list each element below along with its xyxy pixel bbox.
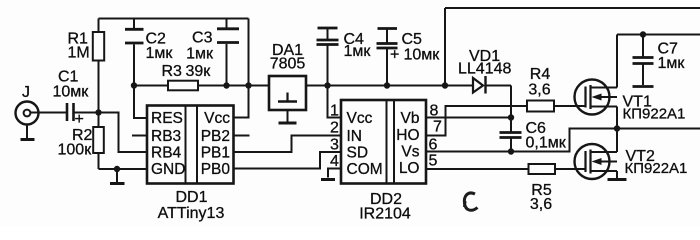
wire PB0 to DD2 SD bbox=[234, 152, 342, 169]
transistor VT2 bbox=[575, 144, 618, 179]
node A (C1/R1/R2 junction) bbox=[95, 109, 101, 115]
svg-text:0,1мк: 0,1мк bbox=[526, 135, 567, 152]
svg-text:LO: LO bbox=[399, 160, 420, 177]
wire VD1 cathode down to Vb bbox=[510, 86, 512, 118]
connector J (input jack) bbox=[16, 102, 39, 125]
capacitor C1 bbox=[67, 103, 99, 121]
wire output middle bbox=[617, 128, 700, 130]
IC DD2 box bbox=[341, 100, 426, 184]
wire VT2 drain up to switch node bbox=[616, 129, 618, 153]
svg-text:ATTiny13: ATTiny13 bbox=[158, 205, 225, 222]
ground (DA1) bbox=[279, 110, 297, 123]
svg-text:КП922А1: КП922А1 bbox=[623, 106, 686, 123]
resistor R3 bbox=[168, 81, 269, 91]
IC DD1 box bbox=[147, 106, 234, 184]
transistor VT1 bbox=[575, 80, 618, 115]
wire PB1 to DD2 IN bbox=[234, 136, 342, 153]
wire mid rail left bbox=[134, 85, 168, 87]
svg-text:Vs: Vs bbox=[401, 144, 419, 161]
svg-text:PB1: PB1 bbox=[201, 145, 230, 162]
svg-text:КП922А1: КП922А1 bbox=[625, 160, 688, 177]
wire DD2 pin8 Vb bbox=[426, 117, 511, 119]
svg-text:Vcc: Vcc bbox=[204, 110, 230, 127]
wire VT2 source down bbox=[616, 171, 618, 178]
wire RB3 stub bbox=[132, 135, 147, 137]
resistor R4 bbox=[527, 101, 587, 112]
svg-text:GND: GND bbox=[151, 161, 185, 178]
wire C2 node to DD1 RES bbox=[134, 86, 147, 119]
ground (VT2 source) bbox=[608, 178, 627, 181]
ground (DD2 COM) bbox=[321, 178, 335, 181]
wire jack to C1 bbox=[31, 112, 67, 114]
node (C5 tap) bbox=[384, 82, 390, 88]
svg-text:4: 4 bbox=[330, 153, 339, 170]
svg-text:7805: 7805 bbox=[270, 56, 306, 73]
svg-text:6: 6 bbox=[429, 137, 438, 154]
wire top right rail bbox=[445, 7, 700, 9]
svg-text:1мк: 1мк bbox=[146, 45, 174, 62]
resistor R5 bbox=[529, 164, 587, 174]
wire VT1 source down to switch node bbox=[616, 107, 618, 129]
svg-text:39к: 39к bbox=[186, 63, 212, 80]
svg-text:1: 1 bbox=[330, 103, 339, 120]
wire rail to DD2 Vcc pin 1 bbox=[328, 86, 342, 118]
wire riser to top right rail bbox=[444, 8, 446, 86]
svg-text:Vcc: Vcc bbox=[347, 110, 373, 127]
svg-text:R4: R4 bbox=[530, 66, 551, 83]
svg-text:SD: SD bbox=[347, 145, 369, 162]
wire DD2 COM to ground bbox=[328, 169, 341, 178]
svg-text:PB2: PB2 bbox=[201, 128, 230, 145]
wire top-left rail bbox=[99, 18, 249, 20]
diode VD1 bbox=[446, 76, 511, 94]
svg-text:IN: IN bbox=[347, 128, 363, 145]
svg-text:LL4148: LL4148 bbox=[458, 61, 511, 78]
node (Vcc drop / rail) bbox=[245, 82, 251, 88]
resistor R1 bbox=[93, 19, 104, 113]
node (Vb / C6 top) bbox=[508, 114, 514, 120]
svg-text:R3: R3 bbox=[162, 63, 183, 80]
capacitor C5 bbox=[377, 29, 398, 86]
node (rail / top right riser) bbox=[442, 82, 448, 88]
svg-text:8: 8 bbox=[430, 103, 439, 120]
stray mark (handwritten C) bbox=[464, 193, 477, 210]
node (C7 tap) bbox=[640, 31, 646, 37]
svg-text:10мк: 10мк bbox=[53, 84, 90, 101]
svg-text:C5: C5 bbox=[402, 31, 423, 48]
svg-text:1M: 1M bbox=[68, 45, 90, 62]
svg-text:Vb: Vb bbox=[401, 110, 420, 127]
wire PB2 stub bbox=[234, 135, 250, 137]
capacitor C4 bbox=[317, 28, 339, 86]
svg-text:+: + bbox=[390, 47, 399, 64]
capacitor C3 bbox=[217, 19, 239, 86]
svg-text:7: 7 bbox=[433, 119, 442, 136]
svg-text:C3: C3 bbox=[192, 30, 213, 47]
voltage regulator DA1 bbox=[269, 76, 306, 110]
ground (jack) bbox=[21, 125, 35, 140]
svg-text:2: 2 bbox=[330, 120, 339, 137]
wire mid rail right bbox=[306, 85, 446, 87]
svg-text:3,6: 3,6 bbox=[530, 196, 552, 213]
capacitor C6 bbox=[500, 118, 522, 152]
node (C4 / DD2 Vcc tap) bbox=[324, 82, 330, 88]
wire DD2 pin5 LO to R5 bbox=[426, 168, 529, 170]
node (C2 / rail) bbox=[131, 82, 137, 88]
svg-text:RES: RES bbox=[151, 110, 183, 127]
svg-text:HO: HO bbox=[396, 127, 419, 144]
wire DD2 pin6 Vs to switch node bbox=[426, 129, 617, 152]
capacitor C7 bbox=[633, 35, 654, 87]
svg-text:DD1: DD1 bbox=[175, 189, 207, 206]
ground (R2/GND) bbox=[110, 169, 125, 184]
wire top rail down to DD1 Vcc bbox=[234, 19, 249, 118]
node (Vs / C6 bottom) bbox=[508, 148, 514, 154]
svg-text:3,6: 3,6 bbox=[528, 82, 550, 99]
wire node A to DD1 RB4 bbox=[99, 113, 148, 153]
svg-text:1мк: 1мк bbox=[186, 45, 214, 62]
node (ground tap) bbox=[114, 166, 120, 172]
svg-text:J: J bbox=[22, 84, 30, 101]
svg-text:RB4: RB4 bbox=[151, 145, 182, 162]
svg-text:1мк: 1мк bbox=[658, 55, 686, 72]
svg-text:5: 5 bbox=[429, 153, 438, 170]
svg-text:3: 3 bbox=[330, 137, 339, 154]
node (C3 / rail) bbox=[223, 82, 229, 88]
svg-text:COM: COM bbox=[347, 161, 383, 178]
resistor R2 bbox=[93, 113, 104, 170]
svg-text:10мк: 10мк bbox=[404, 47, 441, 64]
svg-text:100к: 100к bbox=[58, 142, 93, 159]
svg-text:IR2104: IR2104 bbox=[359, 206, 411, 223]
wire R2 to DD1 GND bbox=[99, 168, 148, 170]
node (switch node) bbox=[614, 125, 620, 131]
svg-text:1мк: 1мк bbox=[344, 43, 372, 60]
svg-text:RB3: RB3 bbox=[151, 128, 181, 145]
capacitor C2 bbox=[125, 19, 144, 86]
svg-text:+: + bbox=[75, 111, 84, 128]
wire VT1 drain up bbox=[616, 35, 618, 88]
wire DD2 pin7 HO to R4 bbox=[426, 106, 527, 136]
wire drain rail to right edge bbox=[617, 34, 700, 36]
svg-text:PB0: PB0 bbox=[201, 161, 231, 178]
